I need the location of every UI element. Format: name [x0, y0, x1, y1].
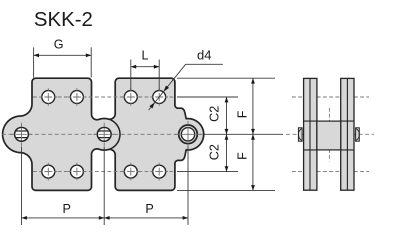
pin P3 (right end bushing, double circle) [179, 125, 198, 144]
svg-text:F: F [236, 110, 250, 118]
svg-text:P: P [145, 202, 153, 216]
svg-text:P: P [62, 202, 70, 216]
side view: right pin end [356, 128, 360, 141]
centerline: bottom hole row, side view [292, 171, 369, 173]
hole A1 (link1 top-left) [42, 91, 55, 104]
hole B4 (link2 bottom-right) [153, 165, 166, 178]
plate outline (top view of links) [3, 78, 204, 190]
centerline: vertical axis of roller block, side view [328, 108, 330, 162]
svg-text:C2: C2 [207, 106, 221, 122]
pin crosshair vertical centerlines [22, 121, 189, 148]
side view: bushing seam lines [304, 121, 354, 150]
side view: center roller block [317, 121, 341, 150]
hole A4 (link1 bottom-right) [70, 165, 83, 178]
small holes [42, 91, 166, 179]
hole B3 (link2 bottom-left) [124, 165, 137, 178]
F dimension [252, 78, 254, 190]
centerline: bottom hole row, left view [33, 171, 175, 173]
hole A2 (link1 top-right) [70, 91, 83, 104]
svg-text:C2: C2 [207, 144, 221, 160]
seam arc: link1 lobe over pin2 [108, 119, 120, 150]
C2 dimension [226, 97, 228, 172]
side view: plate divider lines [310, 78, 347, 190]
pin P2 (middle pin hole with flats) [97, 127, 111, 141]
hole B1 (link2 top-left) [124, 91, 137, 104]
P dimension extension lines (from pins down) [22, 147, 189, 226]
svg-text:L: L [141, 48, 148, 62]
small hole crosshairs [48, 88, 159, 180]
L dimension [131, 60, 159, 91]
pin P1 (left pin hole with flats) [15, 127, 29, 141]
svg-text:d4: d4 [197, 47, 211, 62]
centerline: top hole row, side view [292, 96, 369, 98]
extension lines for C2 / F dimensions [177, 78, 283, 190]
P dimension [22, 217, 189, 219]
hole B2 (link2 top-right, dim d4) [153, 91, 166, 104]
centerline dashes over hole interiors [11, 97, 202, 172]
G dimension [34, 47, 92, 77]
centerline: pin axis (mid), left view [2, 133, 203, 135]
svg-text:F: F [236, 152, 250, 160]
side view: left pin end [298, 128, 302, 141]
centerline: top hole row, left view [33, 96, 175, 98]
centerline rows (dashed) [2, 97, 374, 172]
hole A3 (link1 bottom-left) [42, 165, 55, 178]
side view: plate pair columns [304, 78, 354, 190]
svg-text:SKK-2: SKK-2 [34, 9, 93, 31]
centerline: pin axis (mid), side view [286, 133, 374, 135]
svg-text:G: G [54, 37, 64, 51]
